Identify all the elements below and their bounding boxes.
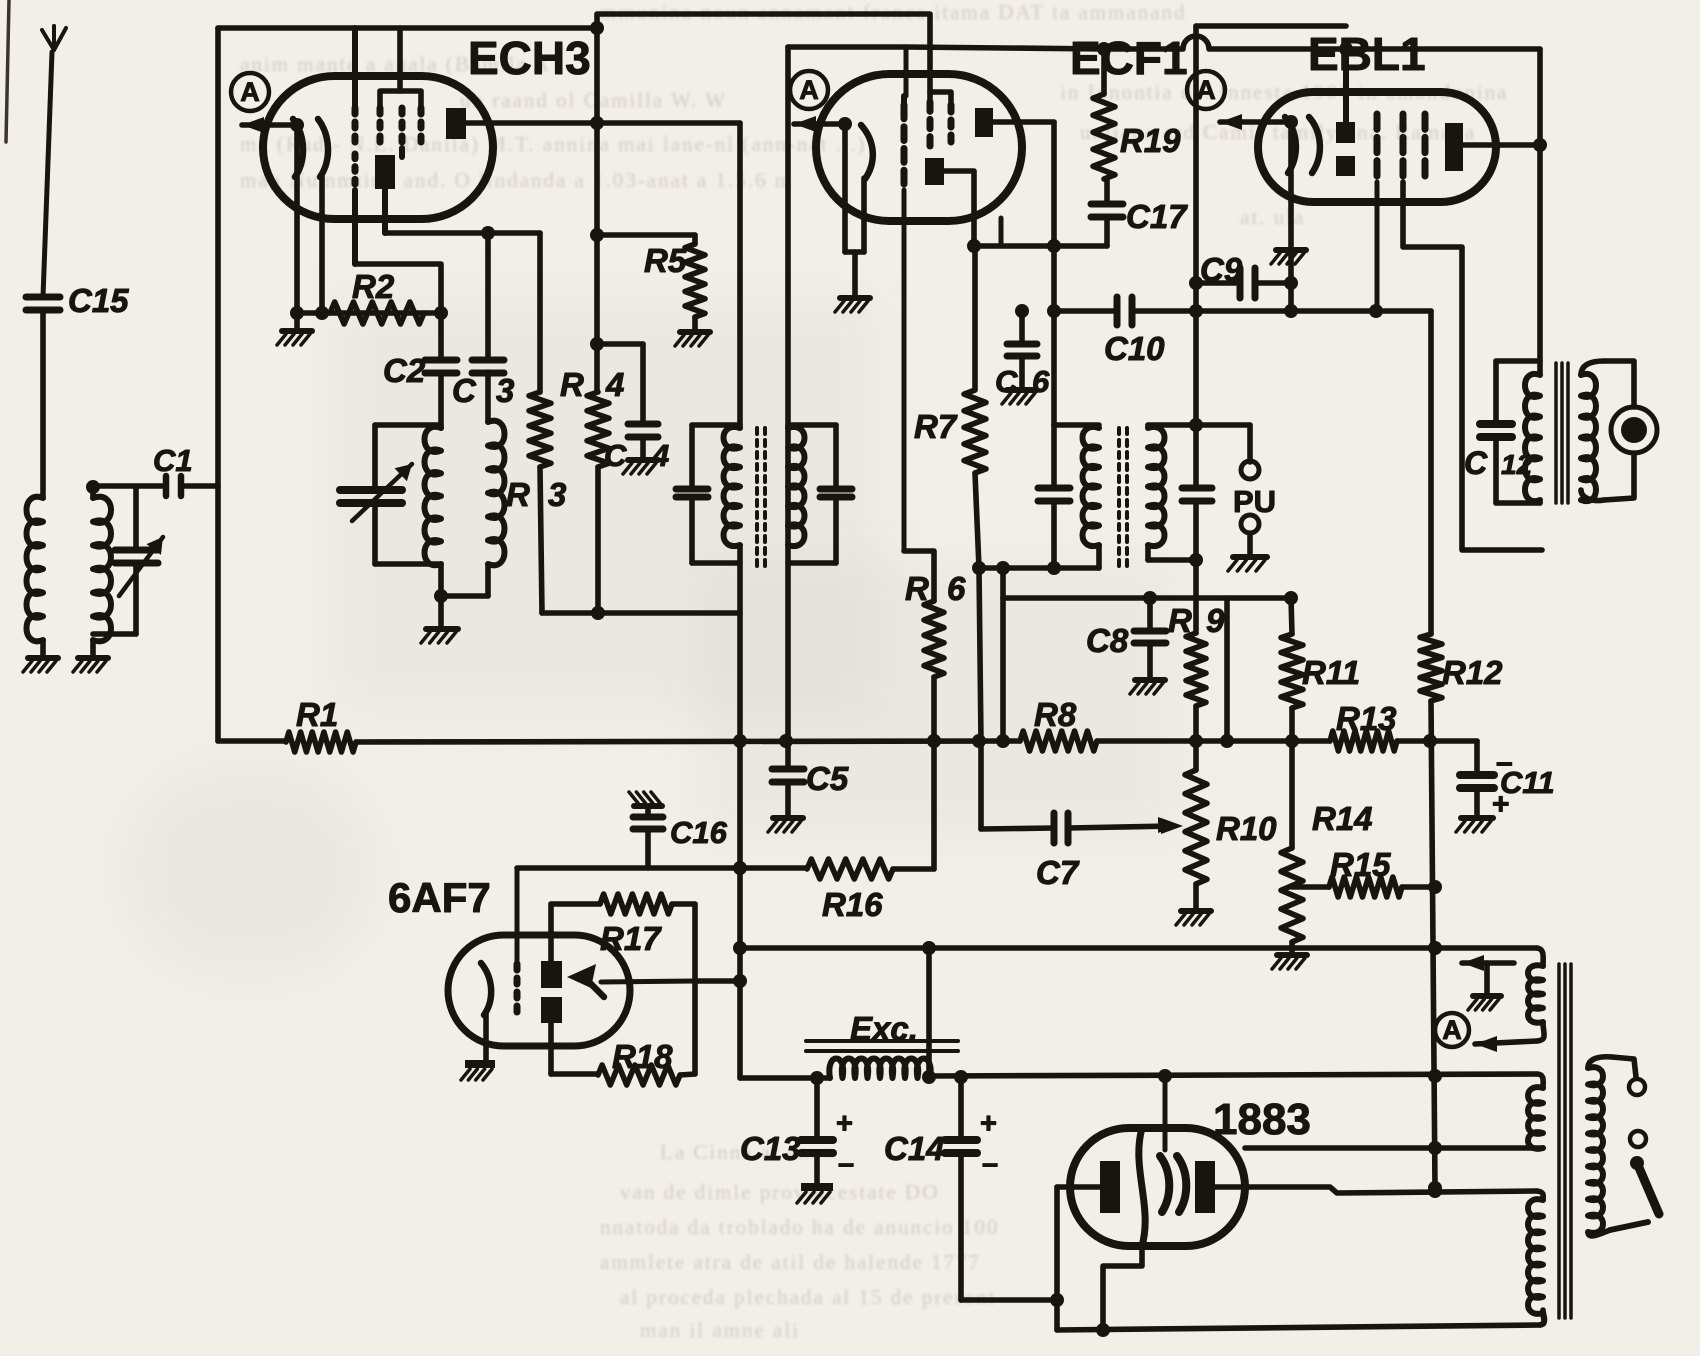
svg-text:+: + — [980, 1108, 997, 1140]
svg-text:4: 4 — [605, 366, 624, 403]
svg-text:C10: C10 — [1104, 330, 1165, 367]
svg-text:R8: R8 — [1034, 696, 1077, 733]
svg-text:C1: C1 — [153, 443, 193, 478]
svg-text:R15: R15 — [1330, 846, 1391, 883]
svg-text:6: 6 — [947, 570, 966, 607]
svg-text:C5: C5 — [806, 760, 849, 797]
svg-text:+: + — [836, 1108, 853, 1140]
svg-text:6: 6 — [1032, 364, 1050, 399]
svg-text:3: 3 — [548, 476, 566, 513]
svg-text:R13: R13 — [1336, 700, 1397, 737]
svg-text:ECF1: ECF1 — [1070, 32, 1188, 84]
svg-text:R1: R1 — [296, 696, 338, 733]
svg-text:R: R — [905, 570, 929, 607]
svg-text:A: A — [240, 77, 260, 107]
svg-text:R19: R19 — [1120, 122, 1181, 159]
svg-text:C17: C17 — [1126, 198, 1188, 235]
svg-text:EBL1: EBL1 — [1308, 28, 1426, 80]
svg-text:C14: C14 — [884, 1130, 945, 1167]
svg-text:A: A — [1442, 1015, 1462, 1045]
svg-text:A: A — [799, 75, 819, 105]
svg-text:9: 9 — [1206, 602, 1225, 639]
svg-text:C16: C16 — [670, 815, 728, 850]
svg-text:R16: R16 — [822, 886, 883, 923]
svg-text:R17: R17 — [600, 920, 662, 957]
svg-text:C11: C11 — [1500, 765, 1555, 800]
svg-text:ECH3: ECH3 — [468, 32, 591, 84]
svg-text:A: A — [1196, 75, 1216, 105]
svg-text:R2: R2 — [352, 268, 395, 305]
svg-text:C: C — [1464, 445, 1488, 481]
svg-text:C13: C13 — [740, 1130, 801, 1167]
svg-text:3: 3 — [496, 372, 514, 409]
svg-text:–: – — [982, 1148, 998, 1180]
svg-text:R12: R12 — [1442, 654, 1503, 691]
svg-text:C: C — [452, 372, 477, 409]
svg-text:C8: C8 — [1086, 622, 1129, 659]
svg-text:R11: R11 — [1302, 654, 1360, 691]
svg-text:C2: C2 — [383, 352, 426, 389]
svg-text:R10: R10 — [1216, 810, 1277, 847]
svg-text:R7: R7 — [914, 408, 958, 445]
svg-text:R14: R14 — [1312, 800, 1373, 837]
svg-text:C9: C9 — [1200, 251, 1243, 288]
svg-text:R: R — [506, 476, 530, 513]
svg-text:–: – — [838, 1148, 854, 1180]
svg-text:C: C — [604, 438, 627, 473]
svg-text:R5: R5 — [644, 242, 687, 279]
svg-text:C7: C7 — [1036, 854, 1080, 891]
svg-text:12: 12 — [1501, 449, 1533, 480]
svg-text:1883: 1883 — [1213, 1095, 1311, 1144]
svg-text:C15: C15 — [68, 282, 129, 319]
svg-text:4: 4 — [651, 438, 669, 473]
svg-text:C: C — [995, 364, 1018, 399]
svg-text:R18: R18 — [612, 1038, 673, 1075]
svg-text:R: R — [1168, 602, 1192, 639]
svg-text:R: R — [560, 366, 584, 403]
svg-text:6AF7: 6AF7 — [388, 874, 491, 921]
